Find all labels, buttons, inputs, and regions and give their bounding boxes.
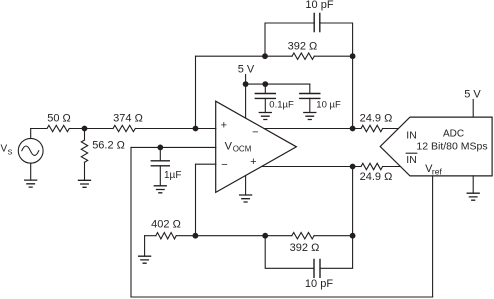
resistor 392 ohm bottom [292, 233, 314, 239]
ground below ADC [467, 193, 479, 200]
wire VS top stem [30, 129, 32, 139]
wire 56.2 bottom lead [84, 162, 86, 180]
junction top rail / feedback [193, 126, 199, 132]
label 5 V amp [238, 64, 255, 76]
wire top output to ADC [383, 128, 399, 130]
wire amp ground stem [245, 176, 247, 195]
capacitor 1uF [151, 161, 169, 166]
ground below 1uF [154, 186, 166, 193]
svg-text:V: V [1, 144, 8, 155]
label amp plus output [250, 156, 256, 168]
label 0.1uF [269, 100, 294, 111]
junction feedback / cap branch left [262, 53, 268, 59]
resistor 402 ohm [156, 233, 176, 239]
wire top output rail [264, 128, 361, 130]
svg-text:−: − [252, 127, 258, 139]
junction minus input / 402 [193, 233, 199, 239]
label Vref [425, 163, 442, 176]
label 24.9 ohm top [360, 112, 393, 124]
svg-text:−: − [221, 159, 227, 171]
svg-text:5 V: 5 V [464, 89, 481, 101]
label 24.9 ohm bottom [360, 171, 393, 183]
wire ADC ground stem [472, 176, 474, 193]
wire 5V stem to amp [245, 75, 247, 119]
label 10 pF top [305, 0, 333, 11]
wire VOCM rail [131, 146, 216, 148]
svg-text:10 pF: 10 pF [305, 0, 333, 11]
ground below VS [25, 180, 37, 187]
svg-text:IN: IN [406, 154, 417, 166]
svg-text:392 Ω: 392 Ω [288, 40, 318, 52]
wire 0.1uF top stem [264, 84, 266, 93]
wire 56.2 top lead [84, 129, 86, 141]
wire top rail mid [69, 128, 113, 130]
junction bottom feedback right [350, 233, 356, 239]
label 10uF [316, 100, 341, 111]
wire 10uF top stem [309, 84, 311, 93]
svg-text:IN: IN [406, 130, 417, 142]
wire 5V decoupling rail [246, 83, 310, 85]
junction bottom cap branch left [262, 233, 268, 239]
svg-text:392 Ω: 392 Ω [290, 242, 320, 254]
wire 10pF bottom right vertical [320, 236, 353, 269]
svg-text:5 V: 5 V [238, 64, 255, 76]
wire Vref vertical [432, 176, 434, 297]
wire 10pF top right vertical [320, 23, 353, 56]
junction 5V rail left [243, 81, 249, 87]
ground below 10uF [304, 113, 316, 120]
junction top output / feedback [350, 126, 356, 132]
wire 402 ground stem [144, 236, 146, 257]
label 392 ohm top [288, 40, 318, 52]
wire top feedback rail right [314, 55, 352, 57]
svg-text:+: + [221, 119, 227, 131]
svg-text:10 µF: 10 µF [316, 100, 341, 111]
svg-text:374 Ω: 374 Ω [113, 112, 143, 124]
wire 1uF top stem [159, 147, 161, 160]
wire bottom output to ADC [383, 166, 401, 168]
ground below 0.1uF [259, 113, 271, 120]
wire top rail left [31, 128, 47, 130]
wire 0.1uF bottom stem [264, 98, 266, 112]
ground below 56.2 [79, 180, 91, 187]
label 402 ohm [151, 219, 181, 231]
svg-text:+: + [250, 156, 256, 168]
label VS [1, 144, 13, 157]
resistor 374 ohm [113, 125, 135, 131]
label 374 ohm [113, 112, 143, 124]
label 392 ohm bottom [290, 242, 320, 254]
ADC U1 [380, 117, 492, 176]
svg-text:56.2 Ω: 56.2 Ω [92, 140, 125, 152]
junction 0.1uF branch [262, 81, 268, 87]
resistor 50 ohm [47, 125, 69, 131]
wire bottom feedback rail [177, 235, 292, 237]
label 12 Bit/80 MSps [416, 141, 487, 153]
wire top rail to amp [136, 128, 216, 130]
svg-text:24.9 Ω: 24.9 Ω [360, 171, 393, 183]
capacitor 10uF [300, 94, 320, 99]
svg-text:402 Ω: 402 Ω [151, 219, 181, 231]
svg-text:ref: ref [432, 166, 443, 176]
capacitor 0.1uF [255, 94, 275, 99]
resistor 24.9 ohm bottom [361, 163, 383, 169]
label amp minus input [221, 159, 227, 171]
label 1uF [164, 170, 181, 181]
wire 1uF bottom stem [159, 166, 161, 186]
wire VOCM bottom rail [131, 296, 433, 298]
ground below amp [240, 195, 252, 202]
label ADC [443, 129, 464, 140]
label 56.2 ohm [92, 140, 125, 152]
wire bottom feedback rail right [314, 235, 353, 237]
svg-text:S: S [8, 148, 13, 157]
resistor 56.2 ohm [81, 140, 87, 162]
wire bottom output rail [262, 166, 362, 168]
svg-text:10 pF: 10 pF [305, 278, 333, 290]
op-amp VOCM [216, 101, 297, 192]
capacitor 10 pF top [314, 14, 320, 32]
junction feedback / cap branch right [350, 53, 356, 59]
label IN [406, 130, 417, 142]
overline IN bar [406, 152, 417, 154]
resistor 24.9 ohm top [361, 125, 383, 131]
voltage source VS [18, 138, 43, 163]
label IN bar [406, 154, 417, 166]
svg-text:12 Bit/80 MSps: 12 Bit/80 MSps [416, 141, 487, 153]
svg-text:V: V [225, 140, 233, 152]
wire feedback left vertical [195, 56, 197, 128]
junction top rail / 56.2 [82, 126, 88, 132]
wire VS bottom stem [30, 163, 32, 180]
junction VOCM / 1uF [157, 145, 163, 151]
label 50 ohm [47, 112, 71, 124]
label 10 pF bottom [305, 278, 333, 290]
wire 10uF bottom stem [309, 98, 311, 112]
capacitor 10 pF bottom [314, 260, 320, 278]
svg-text:0.1µF: 0.1µF [269, 100, 294, 111]
wire feedback right vertical to top output [352, 56, 354, 128]
wire 10pF bottom left vertical [265, 236, 314, 269]
svg-text:OCM: OCM [233, 145, 252, 154]
label 5 V ADC [464, 89, 481, 101]
svg-text:24.9 Ω: 24.9 Ω [360, 112, 393, 124]
wire minus input lead [196, 163, 216, 165]
junction bottom output / feedback [350, 164, 356, 170]
svg-text:1µF: 1µF [164, 170, 181, 181]
ground below 402 [139, 256, 151, 263]
label amp plus input [221, 119, 227, 131]
wire minus input vertical [195, 164, 197, 236]
wire top feedback rail left [196, 55, 293, 57]
resistor 392 ohm top [292, 53, 314, 59]
wire ADC 5V stem [472, 100, 474, 118]
label VOCM [225, 140, 252, 153]
svg-text:ADC: ADC [443, 129, 464, 140]
wire bottom output to feedback vertical [352, 167, 354, 236]
wire 402 left corner [145, 235, 156, 237]
svg-text:50 Ω: 50 Ω [47, 112, 71, 124]
wire VOCM left vertical [130, 147, 132, 297]
label amp minus output [252, 127, 258, 139]
wire 10pF top left vertical [265, 23, 314, 56]
